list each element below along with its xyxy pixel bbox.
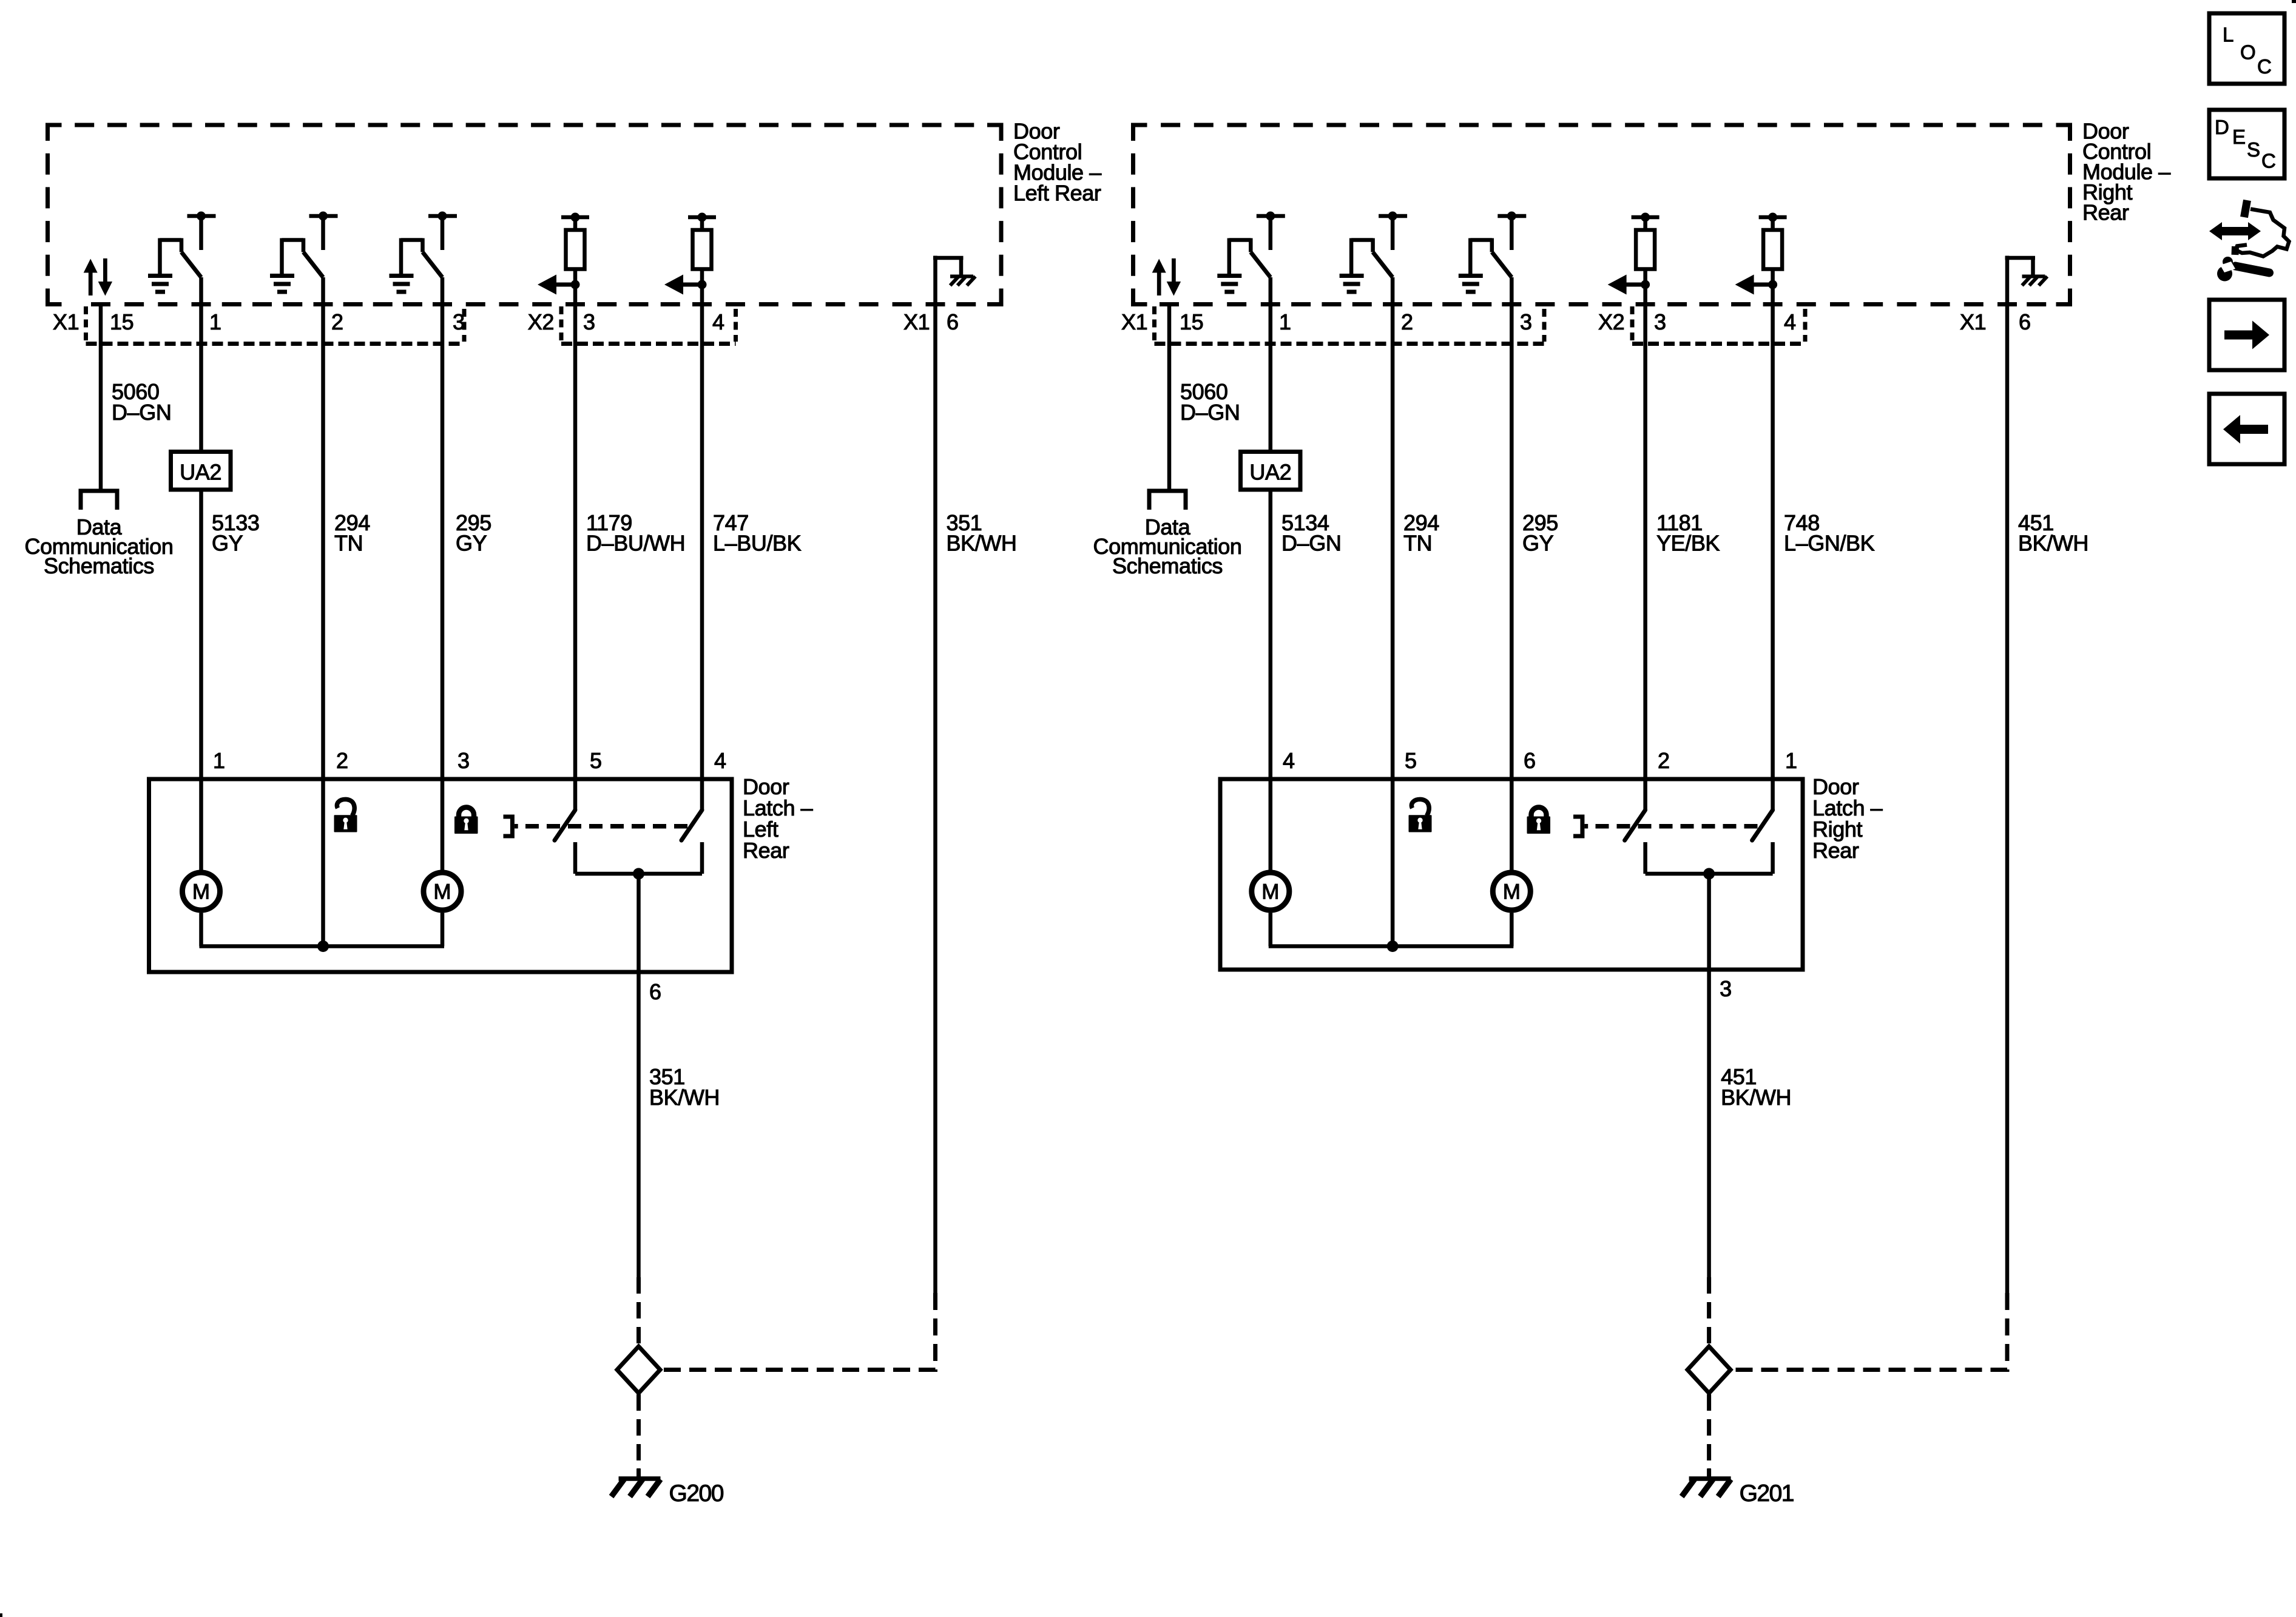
svg-text:O: O <box>2240 41 2256 64</box>
junction node left switch common <box>633 868 644 880</box>
sidebar icon back arrow <box>2209 394 2284 464</box>
ground G200 <box>636 1468 641 1479</box>
module right input pin X2-4: resistor with output arrow inside module <box>1759 215 1787 220</box>
sidebar icon DESC <box>2209 110 2284 178</box>
motor left lock motor <box>424 873 461 910</box>
right: lock (closed padlock) icon <box>1527 807 1551 834</box>
svg-text:L–BU/BK: L–BU/BK <box>713 531 802 556</box>
connector X2 left bracket (dashed) <box>559 306 564 342</box>
svg-text:UA2: UA2 <box>1249 460 1291 485</box>
wire 1181 YE/BK right <box>1643 305 1647 811</box>
svg-text:Schematics: Schematics <box>1112 553 1223 578</box>
svg-text:BK/WH: BK/WH <box>947 531 1017 556</box>
off-page connector to Data Communication Schematics (left) <box>81 491 117 510</box>
svg-text:4: 4 <box>714 748 726 773</box>
svg-text:2: 2 <box>336 748 348 773</box>
svg-text:Rear: Rear <box>743 838 789 863</box>
svg-text:6: 6 <box>947 309 959 334</box>
svg-text:L–GN/BK: L–GN/BK <box>1784 531 1875 556</box>
svg-text:Left Rear: Left Rear <box>1013 181 1101 206</box>
right door ajar plunger bracket <box>1573 817 1582 836</box>
wire 5060 D-GN right <box>1167 302 1172 489</box>
svg-text:6: 6 <box>1524 748 1536 773</box>
wire 295 GY left <box>441 277 445 873</box>
wire 451 BK/WH right (module ground) <box>2005 305 2010 1294</box>
svg-text:3: 3 <box>1720 976 1732 1001</box>
left: lock (closed padlock) icon <box>454 807 478 834</box>
dashed ground wire from module left X1-6 <box>662 1293 936 1370</box>
off-page connector to Data Communication Schematics (right) <box>1149 491 1186 510</box>
svg-text:Rear: Rear <box>1812 838 1859 863</box>
module right driver pin X1-3: switch to ground inside module <box>1497 214 1526 218</box>
svg-text:3: 3 <box>583 309 595 334</box>
svg-text:D–GN: D–GN <box>1281 531 1341 556</box>
svg-text:M: M <box>433 880 451 904</box>
svg-text:2: 2 <box>1401 309 1413 334</box>
junction node left motors <box>317 940 329 952</box>
svg-text:3: 3 <box>1654 309 1666 334</box>
module left driver pin X1-2: switch to ground inside module <box>309 214 338 218</box>
svg-text:Rear: Rear <box>2082 200 2129 225</box>
svg-text:4: 4 <box>1784 309 1796 334</box>
left ajar switch blade 2 <box>681 810 702 840</box>
svg-text:G200: G200 <box>669 1480 724 1507</box>
module right driver pin X1-2: switch to ground inside module <box>1379 214 1407 218</box>
wire 5060 D-GN left <box>99 302 103 489</box>
svg-text:6: 6 <box>649 979 661 1004</box>
wire 5134 D-GN right, circuit UA2 <box>1269 277 1273 452</box>
svg-text:GY: GY <box>1522 531 1554 556</box>
module left pin X1-6: chassis ground inside module <box>933 256 937 305</box>
module left input pin X2-4: resistor with output arrow inside module <box>688 215 716 220</box>
svg-text:D–GN: D–GN <box>1180 400 1240 425</box>
left: unlock (open padlock) icon <box>334 799 357 832</box>
svg-text:15: 15 <box>1180 309 1203 334</box>
svg-text:X2: X2 <box>1598 309 1624 334</box>
svg-text:4: 4 <box>712 309 724 334</box>
svg-text:1: 1 <box>213 748 225 773</box>
svg-text:M: M <box>1503 880 1521 904</box>
svg-text:G201: G201 <box>1740 1480 1794 1507</box>
wire 451 BK/WH lower right <box>1707 874 1711 1277</box>
svg-text:3: 3 <box>1520 309 1532 334</box>
right mechanical linkage (dashed) <box>1584 824 1588 829</box>
svg-text:BK/WH: BK/WH <box>1721 1085 1791 1110</box>
motor right unlock motor <box>1252 873 1289 910</box>
svg-text:X1: X1 <box>903 309 930 334</box>
svg-text:15: 15 <box>110 309 133 334</box>
page tick marks <box>2292 0 2296 3</box>
svg-text:6: 6 <box>2019 309 2031 334</box>
module left input pin X2-3: resistor with output arrow inside module <box>561 215 589 220</box>
left motor common wires <box>199 913 203 947</box>
module left box outline (dashed) <box>46 123 62 127</box>
left ajar switch blade 1 <box>555 810 575 840</box>
Door Latch - Right Rear box <box>1220 779 1803 970</box>
splice right ground splice <box>1687 1346 1730 1393</box>
svg-text:5: 5 <box>1405 748 1417 773</box>
right ajar switch blade 2 <box>1752 810 1773 840</box>
svg-text:D–BU/WH: D–BU/WH <box>586 531 685 556</box>
svg-text:D–GN: D–GN <box>112 400 171 425</box>
wire 748 L-GN/BK right <box>1771 305 1775 811</box>
left door ajar plunger bracket <box>504 817 513 836</box>
module right pin X1-6: chassis ground inside module <box>2005 256 2010 305</box>
svg-text:BK/WH: BK/WH <box>649 1085 720 1110</box>
svg-text:BK/WH: BK/WH <box>2018 531 2088 556</box>
module left driver pin X1-1: switch to ground inside module <box>187 214 216 218</box>
connector X2 right bracket (dashed) <box>1630 306 1635 342</box>
wire 351 BK/WH left (module ground) <box>933 305 937 1294</box>
wire 1179 D-BU/WH left <box>573 305 578 811</box>
svg-text:X1: X1 <box>53 309 79 334</box>
module right pin X1-15: serial-data up/down arrows inside module <box>1157 272 1161 295</box>
connector X1 right bracket (dashed) <box>1152 306 1156 342</box>
svg-text:X1: X1 <box>1960 309 1986 334</box>
wire 747 L-BU/BK left <box>700 305 704 811</box>
ground G201 <box>1707 1468 1711 1479</box>
wire 351 BK/WH lower left <box>636 874 641 1277</box>
svg-text:X2: X2 <box>528 309 554 334</box>
junction node right motors <box>1387 940 1399 952</box>
svg-text:D: D <box>2215 116 2229 138</box>
svg-text:L: L <box>2223 24 2234 46</box>
svg-text:GY: GY <box>212 531 243 556</box>
Door Latch - Left Rear box <box>149 779 732 972</box>
svg-text:Schematics: Schematics <box>44 553 154 578</box>
sidebar icon forward arrow <box>2209 300 2284 370</box>
svg-text:M: M <box>192 880 210 904</box>
module left pin X1-15: serial-data up/down arrows inside module <box>89 272 93 295</box>
wire 294 TN right <box>1391 277 1395 947</box>
svg-text:UA2: UA2 <box>180 460 221 485</box>
module right box outline (dashed) <box>1131 123 1147 127</box>
module right driver pin X1-1: switch to ground inside module <box>1257 214 1285 218</box>
module left driver pin X1-3: switch to ground inside module <box>428 214 457 218</box>
module right input pin X2-3: resistor with output arrow inside module <box>1632 215 1660 220</box>
right ajar switch blade 1 <box>1625 810 1646 840</box>
svg-text:1: 1 <box>1785 748 1797 773</box>
svg-text:TN: TN <box>334 531 363 556</box>
left switch fixed contacts and common <box>573 842 578 874</box>
dashed ground wire from module right X1-6 <box>1732 1293 2007 1370</box>
svg-text:TN: TN <box>1403 531 1432 556</box>
svg-text:YE/BK: YE/BK <box>1656 531 1720 556</box>
connector X1 left bracket (dashed) <box>84 306 88 342</box>
svg-text:C: C <box>2257 55 2272 78</box>
svg-text:C: C <box>2261 150 2276 172</box>
left mechanical linkage (dashed) <box>515 824 518 829</box>
svg-text:2: 2 <box>331 309 343 334</box>
wire 295 GY right <box>1510 277 1514 873</box>
wire 294 TN left <box>321 277 325 947</box>
motor left unlock motor <box>183 873 220 910</box>
svg-text:X1: X1 <box>1121 309 1147 334</box>
svg-text:4: 4 <box>1283 748 1295 773</box>
right: unlock (open padlock) icon <box>1409 799 1432 832</box>
motor right lock motor <box>1493 873 1530 910</box>
svg-text:1: 1 <box>1279 309 1291 334</box>
svg-text:1: 1 <box>209 309 221 334</box>
sidebar icon adjust/repair (hand with wrench) <box>2209 200 2289 282</box>
wire 5133 GY left, circuit UA2 <box>199 277 203 452</box>
svg-text:S: S <box>2247 138 2260 161</box>
svg-text:E: E <box>2232 126 2246 148</box>
sidebar icon LOC <box>2209 13 2284 84</box>
right switch fixed contacts and common <box>1643 842 1647 874</box>
svg-text:M: M <box>1261 880 1279 904</box>
svg-text:GY: GY <box>456 531 487 556</box>
svg-text:2: 2 <box>1658 748 1670 773</box>
svg-text:5: 5 <box>590 748 602 773</box>
junction node right switch common <box>1703 868 1715 880</box>
svg-text:3: 3 <box>458 748 470 773</box>
splice left ground splice <box>617 1346 660 1393</box>
right motor common wires <box>1269 913 1273 947</box>
